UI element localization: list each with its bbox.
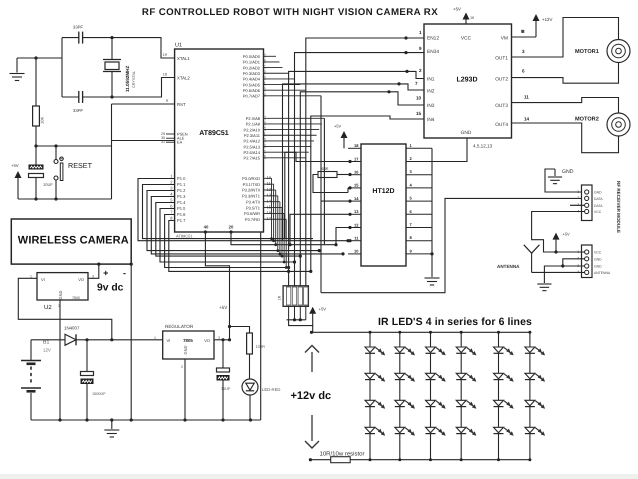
svg-text:11: 11	[524, 95, 529, 100]
svg-text:15: 15	[416, 111, 422, 116]
svg-text:11.0592MHZ: 11.0592MHZ	[125, 66, 130, 92]
label +12v dc measure arrows	[311, 352, 313, 372]
wire crystal vertical	[111, 38, 113, 60]
svg-text:P3.6/WR: P3.6/WR	[244, 211, 260, 216]
wire pin3 stub	[570, 204, 585, 206]
svg-text:15: 15	[354, 183, 359, 188]
svg-text:24: 24	[263, 132, 267, 136]
svg-text:16: 16	[470, 16, 474, 20]
node crystal top	[110, 36, 113, 39]
svg-text:VCC: VCC	[594, 251, 602, 255]
svg-text:GND: GND	[594, 191, 602, 195]
svg-text:3: 3	[522, 49, 525, 54]
ground antenna module	[544, 266, 562, 283]
led D2 LED-RED	[249, 354, 251, 379]
svg-text:P2.1/A9: P2.1/A9	[246, 122, 261, 127]
svg-text:+5V: +5V	[563, 232, 571, 237]
wire IR top rail	[312, 331, 530, 333]
wire P2.0 riser	[323, 118, 325, 244]
wire EN12 net	[306, 38, 424, 286]
switch SW1 RESET	[55, 146, 57, 160]
svg-text:VCC: VCC	[594, 210, 602, 214]
svg-text:REGULATOR: REGULATOR	[165, 324, 194, 329]
wire GND pins 2-3 module2	[563, 259, 585, 266]
ir led D5	[365, 400, 375, 406]
wire IN4 net	[311, 116, 424, 271]
wire pin20 to HT12D	[231, 232, 336, 245]
svg-text:21: 21	[263, 115, 267, 119]
svg-text:14: 14	[354, 196, 359, 201]
svg-text:13: 13	[354, 209, 359, 214]
svg-text:VI: VI	[41, 277, 45, 282]
wire XTAL1 from crystal	[112, 38, 175, 58]
wire OUT1 to motor1	[512, 18, 619, 58]
ir led D4	[365, 373, 375, 379]
wire EN34 net	[295, 53, 425, 286]
svg-text:17: 17	[354, 156, 359, 161]
svg-text:9v dc: 9v dc	[97, 283, 124, 294]
svg-text:P0.6/AD6: P0.6/AD6	[243, 88, 261, 93]
svg-text:U2: U2	[44, 304, 52, 311]
node camera terminals	[97, 263, 100, 266]
ir led D23	[525, 347, 535, 353]
ir led D26	[525, 427, 535, 433]
svg-text:P2.6/A14: P2.6/A14	[244, 150, 261, 155]
svg-text:EA: EA	[177, 140, 183, 145]
svg-text:GND: GND	[58, 290, 63, 299]
svg-text:12: 12	[267, 187, 272, 192]
svg-text:39: 39	[263, 53, 267, 57]
wire ground bus y58	[17, 57, 62, 59]
svg-text:XTAL1: XTAL1	[177, 56, 190, 61]
svg-text:P1.4: P1.4	[177, 200, 186, 205]
resistor R1 10K	[35, 58, 37, 106]
resistor pack RN1 1K	[283, 286, 308, 307]
wire pin40 VCC to +5V riser	[205, 232, 229, 340]
svg-text:WIRELESS CAMERA: WIRELESS CAMERA	[18, 235, 129, 247]
svg-text:18: 18	[163, 73, 167, 77]
svg-text:IN1: IN1	[427, 77, 435, 83]
svg-text:10K: 10K	[40, 117, 45, 124]
svg-text:23: 23	[263, 127, 267, 131]
svg-text:33: 33	[263, 87, 267, 91]
svg-text:P0.1/AD1: P0.1/AD1	[243, 60, 261, 65]
ir led D8	[395, 373, 405, 379]
wire bus P3 stubs	[264, 177, 272, 179]
wire IN3 net	[300, 92, 424, 286]
svg-text:RF CONTROLLED ROBOT WITH NIGHT: RF CONTROLLED ROBOT WITH NIGHT VISION CA…	[142, 7, 438, 18]
wire antenna to pin4	[532, 271, 585, 273]
svg-text:P3.2/INT0: P3.2/INT0	[242, 188, 261, 193]
block wireless camera	[11, 219, 131, 264]
ir led D20	[494, 373, 504, 379]
wire 68K to pin15	[313, 175, 348, 193]
ground top-left	[16, 58, 18, 73]
svg-text:32: 32	[263, 93, 267, 97]
node reset rail left	[34, 144, 37, 147]
ir led D7	[395, 347, 405, 353]
svg-text:GND: GND	[594, 265, 602, 269]
wire caps left bus	[61, 38, 63, 97]
wire U2 VI feed	[18, 278, 112, 340]
node diode output	[85, 338, 88, 341]
ir led D19	[494, 347, 504, 353]
wire bottom rail	[31, 419, 261, 421]
wire OUT3 to motor2	[512, 98, 619, 114]
op motor driver U3 L293D box	[424, 24, 512, 138]
wire IR bottom rail	[310, 459, 530, 461]
svg-text:10: 10	[267, 175, 272, 180]
svg-text:14: 14	[267, 199, 272, 204]
svg-text:RST: RST	[177, 102, 186, 107]
svg-text:RF RECEIVER MODULE: RF RECEIVER MODULE	[616, 181, 621, 233]
svg-text:27: 27	[263, 149, 267, 153]
svg-text:EN34: EN34	[427, 49, 439, 55]
svg-text:4,5,12,13: 4,5,12,13	[473, 144, 493, 149]
ir led D13	[426, 400, 436, 406]
svg-text:P3.3/INT1: P3.3/INT1	[242, 194, 261, 199]
node rail dots	[34, 197, 37, 200]
svg-text:HT12D: HT12D	[372, 188, 394, 195]
wire pack common	[287, 319, 306, 321]
svg-text:2: 2	[181, 365, 183, 369]
svg-text:P1.0: P1.0	[177, 176, 186, 181]
ir led D14	[426, 427, 436, 433]
svg-text:DATA: DATA	[594, 197, 603, 201]
svg-text:CRYSTAL: CRYSTAL	[132, 71, 136, 88]
svg-text:P1.1: P1.1	[177, 182, 186, 187]
power +5V pack	[312, 314, 314, 326]
wire DATA riser P0.7	[320, 96, 322, 293]
ground HT12D	[431, 259, 433, 277]
svg-text:P3.5/T1: P3.5/T1	[246, 205, 261, 210]
svg-text:P1.6: P1.6	[177, 212, 186, 217]
svg-text:13: 13	[267, 193, 272, 198]
svg-text:28: 28	[263, 155, 267, 159]
svg-text:1: 1	[577, 250, 579, 254]
svg-text:GND: GND	[183, 345, 188, 354]
svg-text:33PF: 33PF	[73, 25, 83, 30]
svg-text:10UF: 10UF	[221, 387, 231, 391]
ir led D3	[365, 347, 375, 353]
svg-text:P1.3: P1.3	[177, 194, 186, 199]
svg-text:7805: 7805	[183, 338, 193, 343]
svg-text:VI: VI	[167, 338, 171, 343]
svg-text:7: 7	[415, 81, 418, 86]
motor M2 MOTOR2	[607, 113, 630, 136]
resistor R3 100R	[230, 327, 250, 334]
svg-text:1000UF: 1000UF	[92, 392, 106, 396]
wire bus P1 to decoder band	[138, 179, 348, 241]
svg-text:10: 10	[354, 249, 359, 254]
svg-text:P0.4/AD4: P0.4/AD4	[243, 77, 261, 82]
svg-text:P3.1/TXD: P3.1/TXD	[243, 182, 260, 187]
bottom edge shading	[0, 474, 638, 479]
wire IN1 net	[289, 71, 424, 286]
svg-text:10: 10	[416, 96, 422, 101]
motor M1 MOTOR1	[607, 40, 630, 63]
svg-text:IR LED'S 4 in series for 6 li: IR LED'S 4 in series for 6 lines	[378, 316, 532, 328]
svg-text:L293D: L293D	[456, 77, 477, 84]
capacitor C4 1000UF	[86, 340, 88, 372]
battery B1 12V	[30, 340, 32, 360]
ir led D12	[426, 373, 436, 379]
capacitor C2 33PF	[78, 91, 80, 103]
svg-text:-: -	[123, 268, 126, 278]
wire OUT4 to motor2	[512, 123, 619, 153]
wire bus P2 stubs	[264, 117, 325, 119]
svg-text:7806: 7806	[72, 296, 80, 300]
ir led D15	[456, 347, 466, 353]
connector J1 RF receiver pins	[582, 185, 593, 221]
svg-text:31: 31	[161, 140, 165, 144]
connector J2 antenna module pins	[582, 245, 593, 278]
svg-text:AT89C51: AT89C51	[199, 130, 229, 137]
svg-text:1: 1	[154, 336, 156, 340]
crystal Y1 11.0592MHZ	[103, 59, 121, 61]
wire EA	[112, 140, 175, 142]
node pin11 pin10	[346, 239, 349, 242]
svg-text:20: 20	[229, 225, 234, 230]
wire pin12 route	[336, 228, 348, 245]
svg-text:P0.0/AD0: P0.0/AD0	[243, 54, 261, 59]
wire XTAL2 from crystal	[112, 78, 175, 98]
svg-text:GND: GND	[461, 130, 472, 136]
svg-text:P1.7: P1.7	[177, 218, 186, 223]
svg-text:2: 2	[577, 196, 579, 200]
wire bus P0 stubs	[264, 55, 277, 57]
svg-text:10UF: 10UF	[43, 182, 53, 187]
svg-text:U1: U1	[175, 43, 182, 49]
svg-text:P1.2: P1.2	[177, 188, 186, 193]
svg-text:+5V: +5V	[11, 163, 19, 168]
svg-text:MOTOR1: MOTOR1	[575, 49, 599, 55]
svg-text:+5V: +5V	[453, 7, 461, 12]
svg-text:P3.4/T0: P3.4/T0	[246, 199, 261, 204]
svg-text:IN4: IN4	[427, 117, 435, 123]
wire pin13 route	[290, 214, 348, 244]
ir led D24	[525, 373, 535, 379]
svg-text:P0.2/AD2: P0.2/AD2	[243, 65, 261, 70]
svg-text:P0.3/AD3: P0.3/AD3	[243, 71, 261, 76]
antenna ANT1	[524, 245, 532, 253]
svg-text:12: 12	[354, 222, 359, 227]
svg-text:16: 16	[354, 170, 359, 175]
svg-text:P0.5/AD5: P0.5/AD5	[243, 82, 261, 87]
svg-text:EN12: EN12	[427, 36, 439, 42]
wire camera minus to rail	[130, 264, 132, 420]
svg-text:AT89C51: AT89C51	[176, 234, 193, 239]
svg-text:P0.7/AD7: P0.7/AD7	[243, 94, 261, 99]
wire IN2 net	[283, 84, 425, 241]
svg-text:34: 34	[263, 82, 267, 86]
wire 7805 VO to +5V riser	[214, 339, 230, 341]
svg-text:+5V: +5V	[219, 305, 228, 310]
wire camera plus to U2 VO	[88, 264, 99, 278]
capacitor C5 10UF	[222, 340, 224, 368]
svg-text:OUT3: OUT3	[495, 103, 508, 109]
svg-text:19: 19	[163, 53, 167, 57]
wire L293D GND to ladder	[432, 138, 467, 162]
wire pin20 GND branch right	[231, 232, 261, 420]
wire reset ground rail	[18, 198, 112, 200]
svg-text:OUT1: OUT1	[495, 56, 508, 62]
svg-text:ANTENNA: ANTENNA	[594, 271, 611, 275]
ir led D9	[395, 400, 405, 406]
ir led D6	[365, 427, 375, 433]
svg-text:15: 15	[267, 204, 272, 209]
svg-text:35: 35	[263, 76, 267, 80]
ground main rail	[111, 420, 113, 429]
svg-text:+12V: +12V	[542, 17, 552, 22]
ir led D10	[395, 427, 405, 433]
svg-text:GND: GND	[562, 169, 574, 175]
svg-text:OUT4: OUT4	[495, 122, 508, 128]
svg-text:MOTOR2: MOTOR2	[575, 117, 599, 123]
svg-text:P3.7/RD: P3.7/RD	[245, 217, 260, 222]
led columns	[369, 332, 371, 459]
svg-text:18: 18	[354, 143, 359, 148]
svg-text:9: 9	[166, 99, 168, 103]
svg-text:1N4007: 1N4007	[64, 326, 80, 331]
svg-text:25: 25	[263, 138, 267, 142]
svg-text:P2.2/A10: P2.2/A10	[244, 127, 261, 132]
svg-text:P2.0/A8: P2.0/A8	[246, 116, 261, 121]
HT12D right stubs ladder	[406, 147, 432, 149]
svg-text:P2.4/A12: P2.4/A12	[244, 139, 261, 144]
ir led D17	[456, 400, 466, 406]
svg-text:37: 37	[263, 65, 267, 69]
op decoder U4 HT12D box	[361, 144, 406, 266]
svg-text:16: 16	[267, 210, 272, 215]
svg-text:100R: 100R	[256, 344, 266, 349]
ground RF module top	[545, 169, 582, 192]
svg-text:33PF: 33PF	[73, 108, 83, 113]
node rail junctions	[58, 418, 61, 421]
ir led D11	[426, 347, 436, 353]
svg-text:38: 38	[263, 59, 267, 63]
svg-text:1: 1	[577, 190, 579, 194]
svg-text:IN2: IN2	[427, 89, 435, 95]
svg-text:36: 36	[263, 70, 267, 74]
svg-text:22: 22	[263, 121, 267, 125]
svg-text:ANTENNA: ANTENNA	[497, 264, 520, 269]
svg-text:+5V: +5V	[319, 307, 327, 312]
svg-text:14: 14	[524, 117, 530, 122]
svg-text:17: 17	[267, 216, 272, 221]
wire U2 GND down	[59, 300, 61, 420]
svg-text:+5V: +5V	[334, 124, 342, 129]
ir led D16	[456, 373, 466, 379]
wire RST horizontals	[36, 145, 112, 147]
svg-text:GND: GND	[594, 257, 602, 261]
svg-text:DATA: DATA	[594, 204, 603, 208]
node resistor tap	[34, 56, 37, 59]
svg-text:P2.5/A13: P2.5/A13	[244, 144, 261, 149]
HT12D left stubs and numbers	[348, 147, 361, 149]
ir led D22	[494, 427, 504, 433]
ir led D25	[525, 400, 535, 406]
ir led D18	[456, 427, 466, 433]
wire pin14 DIN route	[321, 200, 348, 202]
svg-text:8: 8	[521, 29, 524, 34]
wire OUT2 to motor1	[512, 63, 619, 84]
regulator U2 7806 box	[37, 273, 88, 300]
svg-text:P2.7/A15: P2.7/A15	[244, 156, 261, 161]
svg-text:XTAL2: XTAL2	[177, 75, 190, 80]
svg-text:RESET: RESET	[68, 161, 93, 170]
svg-text:3: 3	[92, 275, 94, 279]
svg-text:VO: VO	[78, 277, 84, 282]
junction dots band	[299, 255, 302, 258]
node crystal bottom	[110, 95, 113, 98]
wire 7805 GND down	[184, 359, 186, 420]
svg-text:VCC: VCC	[461, 36, 472, 42]
svg-text:68K: 68K	[321, 166, 328, 171]
svg-text:P2.3/A11: P2.3/A11	[244, 133, 261, 138]
svg-text:12V: 12V	[43, 348, 51, 353]
svg-text:+: +	[103, 268, 108, 278]
svg-text:6: 6	[522, 69, 525, 74]
svg-text:VM: VM	[501, 36, 508, 42]
svg-text:1K: 1K	[278, 295, 282, 300]
wire VT pin17 route	[285, 152, 348, 238]
svg-text:26: 26	[263, 144, 267, 148]
svg-text:IN3: IN3	[427, 103, 435, 109]
svg-text:9: 9	[419, 46, 422, 51]
svg-text:LED-RED: LED-RED	[262, 387, 280, 392]
svg-text:B1: B1	[43, 340, 49, 346]
wire DATA from decoder to RF module	[321, 198, 582, 292]
svg-text:2: 2	[419, 68, 422, 73]
svg-text:P3.0/RXD: P3.0/RXD	[242, 176, 260, 181]
svg-text:OUT2: OUT2	[495, 77, 508, 83]
svg-text:1: 1	[419, 30, 422, 35]
svg-text:40: 40	[204, 225, 209, 230]
svg-text:P1.5: P1.5	[177, 206, 186, 211]
svg-text:VO: VO	[204, 338, 210, 343]
capacitor C3 10UF electrolytic	[35, 146, 37, 165]
ir led D21	[494, 400, 504, 406]
wire VCC link modules	[532, 212, 585, 253]
svg-text:+12v dc: +12v dc	[291, 390, 332, 402]
